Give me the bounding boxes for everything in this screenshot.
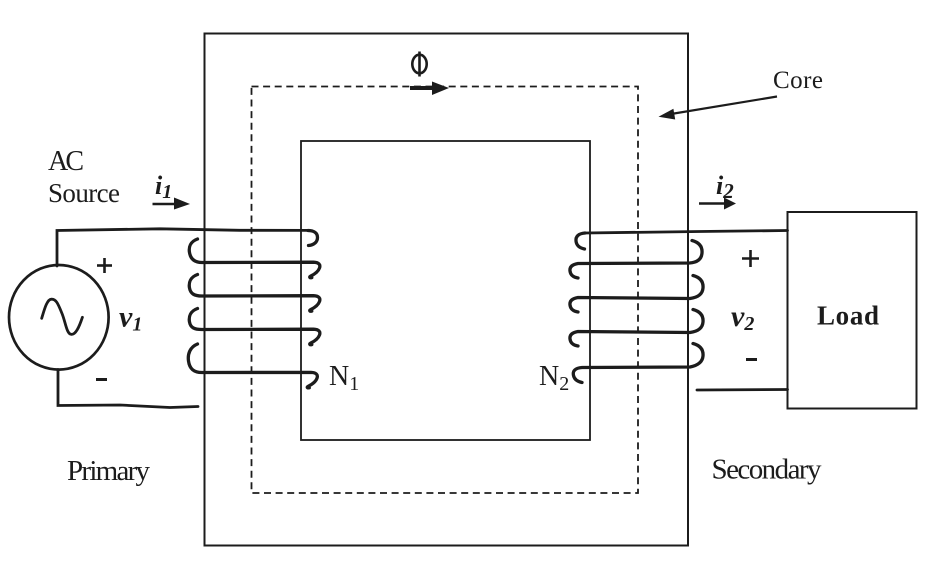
wire from AC source bottom xyxy=(58,370,198,408)
minus sign primary xyxy=(96,378,107,381)
core pointer arrow xyxy=(668,97,777,115)
sine symbol inside source xyxy=(42,299,83,334)
load box xyxy=(788,212,917,409)
flux path dashed rectangle xyxy=(252,87,639,494)
minus sign secondary xyxy=(746,358,757,361)
svg-text:Source: Source xyxy=(48,178,120,208)
wire from AC source top to primary winding xyxy=(57,229,308,266)
flux label phi xyxy=(412,52,426,77)
flux arrow xyxy=(410,86,434,90)
arrow i2 xyxy=(699,202,726,205)
primary winding N1 xyxy=(188,231,320,388)
outer core rectangle xyxy=(205,34,689,546)
core window inner rectangle xyxy=(301,141,590,440)
secondary winding N2 xyxy=(570,233,703,383)
plus sign secondary xyxy=(742,250,759,267)
wire from secondary bottom to load xyxy=(697,388,788,391)
svg-text:Primary: Primary xyxy=(67,455,151,487)
wire from load top to secondary winding xyxy=(585,231,788,234)
plus sign primary xyxy=(97,258,112,273)
arrow i1 xyxy=(153,203,177,206)
AC source circle xyxy=(9,265,109,370)
svg-text:Load: Load xyxy=(817,301,879,331)
svg-text:AC: AC xyxy=(48,146,84,177)
svg-text:Core: Core xyxy=(773,67,823,94)
svg-text:Secondary: Secondary xyxy=(712,454,823,486)
